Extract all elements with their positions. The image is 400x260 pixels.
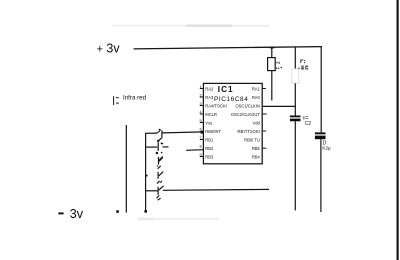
svg-text:RB0/INT: RB0/INT xyxy=(205,129,221,134)
svg-text:6: 6 xyxy=(199,128,201,132)
svg-text:RA2: RA2 xyxy=(205,86,214,91)
svg-text:RB3: RB3 xyxy=(205,154,214,159)
switch S5 bar xyxy=(157,187,159,195)
switch S4 bar xyxy=(157,172,159,179)
S5 tail marks xyxy=(157,195,160,198)
capacitor C2 xyxy=(290,116,301,122)
S3 lever diagonal xyxy=(159,157,163,161)
node dot near -3v xyxy=(116,210,119,213)
svg-text:3v: 3v xyxy=(106,42,120,56)
battery symbol (faded) xyxy=(113,96,115,105)
svg-text:RB4: RB4 xyxy=(252,154,261,159)
svg-text:RA1: RA1 xyxy=(252,86,261,91)
IC left pin ticks xyxy=(200,89,204,157)
svg-text:3v: 3v xyxy=(70,207,84,221)
svg-text:8: 8 xyxy=(199,145,201,149)
switch S1 lever xyxy=(157,129,160,133)
svg-text:RB6/ TU: RB6/ TU xyxy=(244,137,260,142)
svg-text:RB1: RB1 xyxy=(205,137,214,142)
svg-text:3: 3 xyxy=(199,102,201,106)
svg-text:C2: C2 xyxy=(305,121,312,127)
IC1 title and part number xyxy=(214,85,248,103)
svg-text:OSC2/CLKOUT: OSC2/CLKOUT xyxy=(231,112,260,117)
wire R1 to node xyxy=(271,71,273,101)
svg-text:5: 5 xyxy=(199,119,201,123)
svg-text:1: 1 xyxy=(199,85,201,89)
wire R2 to OSC node xyxy=(294,83,296,115)
C3 labels xyxy=(322,141,331,151)
+3v rail wire xyxy=(134,47,323,49)
C2 labels xyxy=(303,115,311,127)
wire C2 to bottom xyxy=(294,121,296,210)
S4 tail marks xyxy=(157,181,160,184)
S2 output stub xyxy=(162,146,168,148)
capacitor C3 (electrolytic) xyxy=(315,132,326,139)
S2 blob xyxy=(156,152,158,154)
svg-text:OSC1/CLKIN: OSC1/CLKIN xyxy=(235,103,259,108)
svg-text:2: 2 xyxy=(199,94,201,98)
+3v supply label xyxy=(97,42,121,56)
-3v supply label xyxy=(58,207,83,221)
R2 labels xyxy=(298,59,308,69)
IC right pin labels xyxy=(231,86,261,159)
S1 actuator diagonal xyxy=(158,138,161,141)
R1 value label xyxy=(276,62,282,69)
right rail wire (bottom section) xyxy=(320,139,322,212)
wire bus to S5 xyxy=(146,190,158,192)
wire S1 to RB0/INT xyxy=(163,132,204,133)
RB0 pin junction blob xyxy=(201,131,204,134)
page edge line (right border of scan) xyxy=(397,0,399,260)
long wire S5 to under IC xyxy=(163,188,269,191)
battery note text xyxy=(123,94,147,101)
svg-text:RB2: RB2 xyxy=(205,146,214,151)
bus foot blob xyxy=(144,210,147,212)
right rail wire (top section) xyxy=(320,47,322,133)
svg-text:Infra red: Infra red xyxy=(123,94,147,101)
S2 lever diagonal xyxy=(158,157,162,161)
svg-text:RA0: RA0 xyxy=(252,95,261,100)
svg-text:PIC16C84: PIC16C84 xyxy=(214,96,248,103)
resistor R1 branch wire (top) xyxy=(271,47,273,58)
switch S2 bar xyxy=(157,142,159,151)
svg-text:RA3: RA3 xyxy=(205,95,214,100)
svg-text:IC1: IC1 xyxy=(218,85,234,94)
wire OSC1 pin to node xyxy=(262,105,296,107)
left battery wire xyxy=(125,125,127,213)
resistor R2 branch wire (top) xyxy=(294,47,296,69)
IC right pin ticks xyxy=(262,89,267,149)
node: switch bus corner xyxy=(146,133,158,212)
wire to RB2 pin (partially faded) xyxy=(186,149,203,152)
svg-text:Vss: Vss xyxy=(205,120,212,125)
svg-text:9: 9 xyxy=(199,153,201,157)
resistor R2 (faded box) xyxy=(292,69,299,83)
junction serif at R1 branch xyxy=(270,47,274,49)
switch S3 bar xyxy=(158,157,160,165)
svg-text:+: + xyxy=(97,44,103,56)
junction dot on bus xyxy=(146,175,148,177)
switch S1 bar xyxy=(161,130,163,138)
faint smudge top (ghost of faded text) xyxy=(112,24,269,27)
svg-text:RA4/TOCKI: RA4/TOCKI xyxy=(205,103,227,108)
svg-text:K2µ: K2µ xyxy=(322,145,331,150)
svg-text:4: 4 xyxy=(199,111,201,115)
S5 lever diagonal xyxy=(159,186,164,190)
wire bus to S2 xyxy=(146,146,158,148)
S4 lever diagonal xyxy=(159,172,164,176)
svg-text:RB7/T1OSI: RB7/T1OSI xyxy=(237,129,259,134)
svg-text:RB5: RB5 xyxy=(252,146,261,151)
resistor R1 (box) xyxy=(268,58,276,71)
IC left pin numbers xyxy=(199,85,201,157)
faint smudge bottom xyxy=(138,218,155,221)
op IC1 box xyxy=(203,83,262,163)
IC left pin labels xyxy=(205,86,227,159)
svg-text:Vdd: Vdd xyxy=(253,120,261,125)
S3 tail marks xyxy=(158,166,161,169)
svg-text:MCLR: MCLR xyxy=(205,112,217,117)
svg-text:7: 7 xyxy=(199,136,201,140)
